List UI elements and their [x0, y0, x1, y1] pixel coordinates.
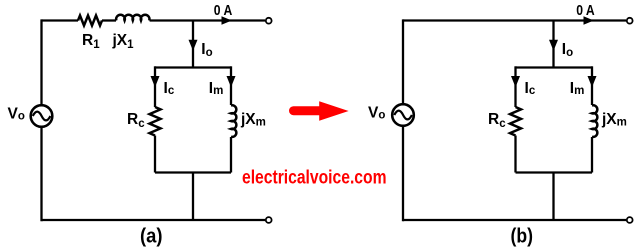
inductor jX1: [116, 15, 149, 21]
svg-text:(b): (b): [511, 226, 534, 248]
wire: top rail of parallel branch: [155, 66, 231, 68]
wire: left vertical upper (source to top wire): [40, 19, 42, 105]
source Vo (AC source): [31, 105, 53, 127]
svg-text:0 A: 0 A: [214, 3, 233, 19]
arrowhead: Im current arrow: [227, 76, 236, 87]
wire: middle vertical from parallel rail to bottom wire: [192, 173, 194, 221]
wire: bottom horizontal to bottom terminal: [42, 219, 266, 221]
wire: left branch vertical lower: [154, 136, 156, 173]
svg-text:(a): (a): [140, 226, 163, 248]
resistor R1: [78, 16, 102, 26]
svg-text:0 A: 0 A: [576, 3, 595, 19]
wire: bottom rail of parallel branch: [155, 171, 231, 173]
wire: between R1 and jX1: [102, 19, 116, 21]
arrowhead: Ic current arrow: [511, 76, 520, 87]
wire: top horizontal from source corner to output terminal: [403, 19, 626, 21]
node: bottom output terminal (a): [266, 217, 272, 223]
wire: left branch vertical upper (Ic): [514, 66, 516, 107]
wire: right branch vertical upper (Im): [230, 66, 232, 105]
wire: right branch vertical lower: [230, 137, 232, 173]
wire: top horizontal from jX1 to output terminal: [150, 19, 265, 21]
node: top output terminal (a): [266, 18, 272, 24]
arrowhead: Io current arrow: [549, 40, 558, 51]
wire: middle vertical from parallel rail to bottom wire: [552, 173, 554, 221]
node: bottom output terminal (b): [627, 217, 633, 223]
wire: left vertical lower (source to bottom wire): [402, 126, 404, 221]
arrowhead: Io current arrow: [189, 40, 198, 51]
wire: bottom horizontal to bottom terminal: [403, 219, 626, 221]
resistor Rc: [150, 107, 161, 136]
resistor Rc: [510, 107, 521, 136]
wire: junction vertical down to parallel rail (Io branch): [552, 21, 554, 68]
wire: right branch vertical upper (Im): [591, 66, 593, 105]
red transform arrow: [289, 101, 349, 121]
wire: left branch vertical upper (Ic): [154, 66, 156, 107]
inductor jXm: [231, 105, 236, 137]
wire: bottom rail of parallel branch: [516, 171, 593, 173]
node: top output terminal (b): [627, 18, 633, 24]
arrowhead: 0 A current direction on top wire: [584, 16, 594, 24]
arrowhead: Ic current arrow: [151, 76, 160, 87]
wire: top rail of parallel branch: [516, 66, 593, 68]
wire: junction vertical down to parallel rail (Io branch): [192, 21, 194, 68]
arrowhead: Im current arrow: [588, 76, 597, 87]
inductor jXm: [592, 105, 597, 137]
wire: left branch vertical lower: [514, 136, 516, 173]
wire: left vertical upper (source to top wire): [402, 19, 404, 104]
wire: left vertical lower (source to bottom wire): [40, 127, 42, 221]
arrowhead: 0 A current direction on top wire: [222, 16, 232, 24]
source Vo (AC source): [392, 104, 414, 126]
wire: top-left horizontal from source corner to resistor R1: [42, 19, 79, 21]
svg-text:electricalvoice.com: electricalvoice.com: [242, 167, 387, 189]
wire: right branch vertical lower: [591, 137, 593, 173]
